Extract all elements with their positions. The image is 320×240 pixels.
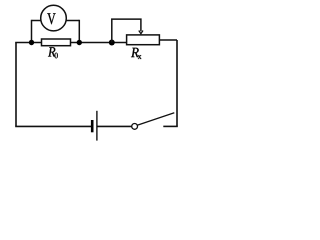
rheostat Rx body <box>127 35 160 45</box>
wire: bottom right stub to switch fixed contact <box>163 125 178 127</box>
node C junction dot (left of rheostat) <box>109 40 115 46</box>
resistor R0 body <box>42 39 71 46</box>
wire: voltmeter right lead vertical <box>78 20 80 43</box>
wire: slider riser and top run to wiper <box>112 19 141 42</box>
wire: right vertical branch <box>176 40 178 126</box>
wire: top horizontal from left corner to rheostat <box>15 42 127 44</box>
battery BT1 long plate (positive) <box>96 111 98 141</box>
battery BT1 short plate (negative) <box>91 120 94 132</box>
label R0 <box>48 47 55 56</box>
wire: voltmeter left lead vertical <box>31 20 33 43</box>
wire: left vertical branch <box>15 43 17 127</box>
voltmeter V1 letter V <box>47 13 55 24</box>
wire: rheostat right stub <box>159 39 177 41</box>
wire: bottom horizontal right of battery <box>98 125 132 127</box>
switch S1 blade (open) <box>137 113 174 126</box>
wire: voltmeter top lead horizontal <box>32 20 80 22</box>
node B junction dot (right of R0) <box>77 40 82 45</box>
rheostat Rx wiper arrowhead <box>139 31 143 34</box>
label Rx <box>131 48 139 57</box>
switch S1 pivot circle <box>132 124 138 130</box>
wire: bottom horizontal left of battery <box>15 125 91 127</box>
voltmeter V1 circle <box>41 5 67 31</box>
node A junction dot (left of R0) <box>29 40 34 45</box>
